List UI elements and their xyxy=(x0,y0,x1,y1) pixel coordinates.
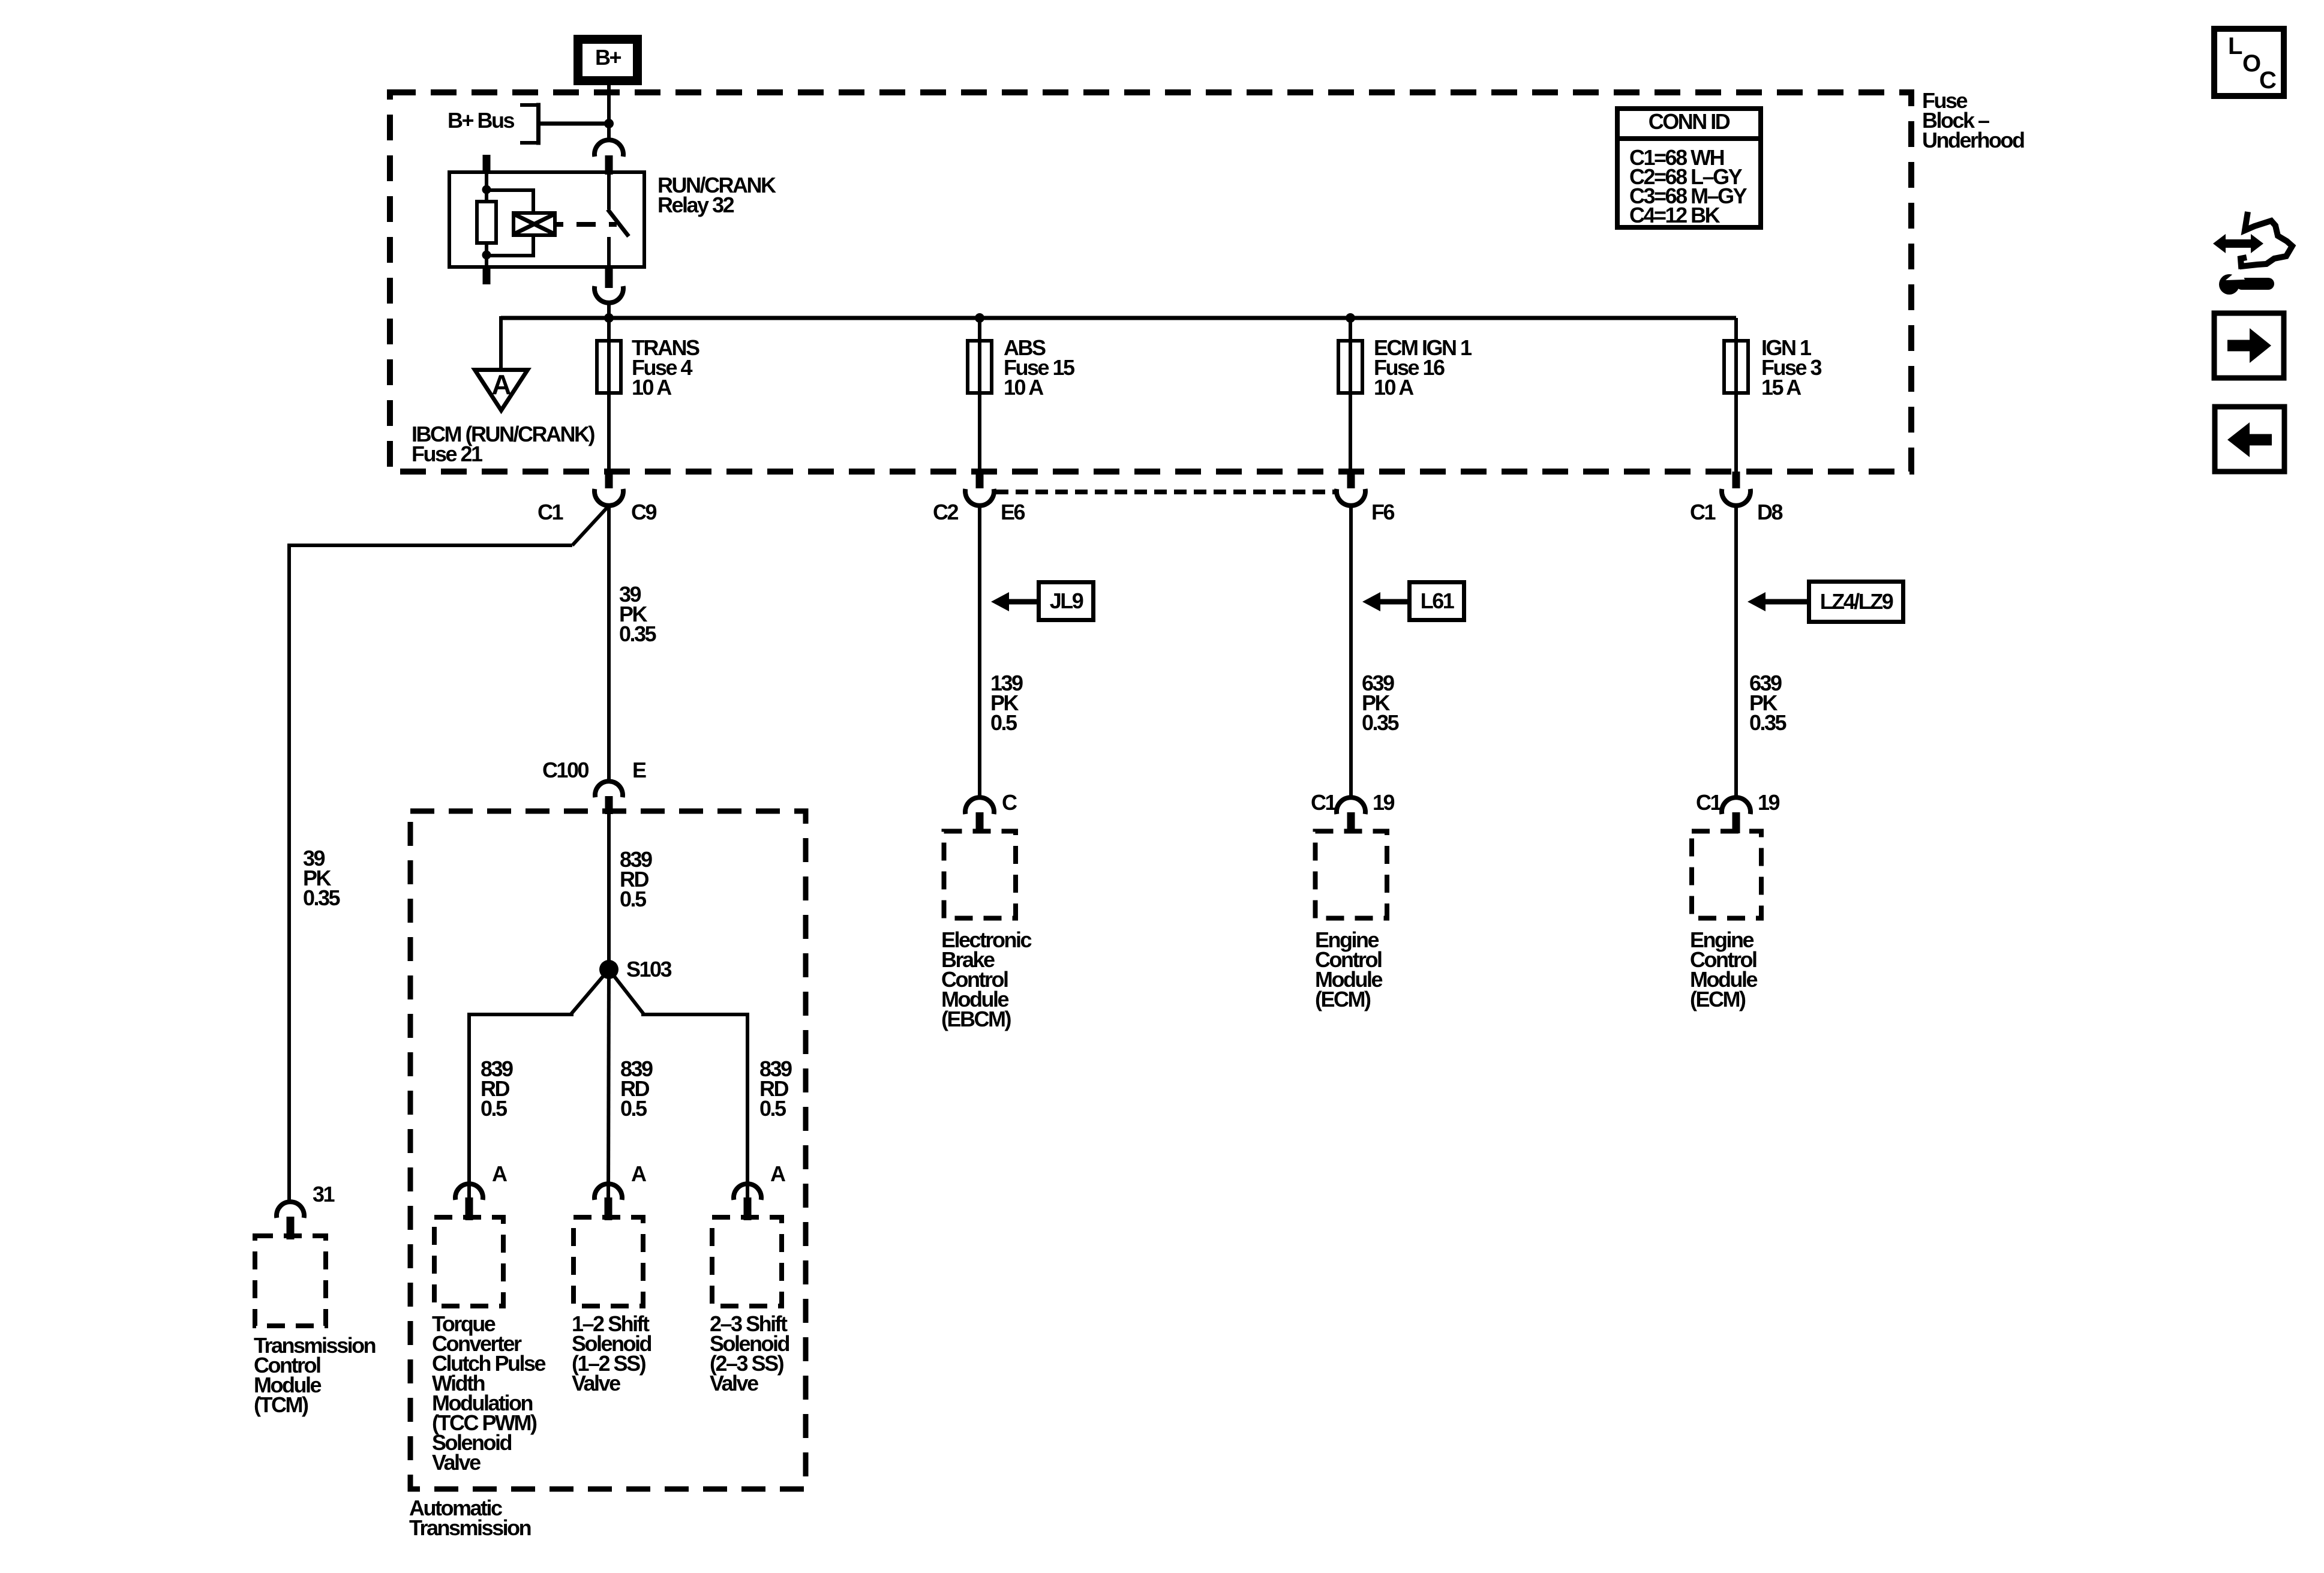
node bus ECM IGN fuse xyxy=(1346,313,1355,323)
svg-text:(EBCM): (EBCM) xyxy=(941,1007,1011,1031)
fuse ECM IGN 1 Fuse 16 xyxy=(1338,341,1362,393)
icon previous page arrow box xyxy=(2215,407,2284,472)
svg-text:B+: B+ xyxy=(595,45,621,70)
connector C1 19 terminal ECM right xyxy=(1722,797,1750,814)
svg-text:0.5: 0.5 xyxy=(620,887,647,911)
label 839 RD 0.5 middle xyxy=(620,1056,653,1121)
connector C1 19 terminal ECM xyxy=(1337,797,1365,814)
node coil bottom xyxy=(482,251,491,260)
svg-text:(TCM): (TCM) xyxy=(254,1392,308,1417)
connector 31 terminal TCM xyxy=(277,1202,304,1218)
wire dotted connector body link E6 to F6 xyxy=(996,490,1337,494)
wire horizontal run to TCM column xyxy=(289,544,572,547)
rpo arrow JL9 xyxy=(991,592,1009,611)
svg-text:C: C xyxy=(1002,790,1017,815)
svg-text:B+ Bus: B+ Bus xyxy=(448,108,515,133)
svg-text:A: A xyxy=(492,1161,508,1186)
wire EBCM column 139 PK xyxy=(978,506,981,798)
relay switch blade xyxy=(608,209,629,236)
wire branch to IBCM fuse xyxy=(499,316,503,368)
wire C100 to S103 839 RD xyxy=(607,814,611,968)
connector male pin into relay xyxy=(605,155,613,175)
svg-text:0.35: 0.35 xyxy=(303,885,341,910)
svg-text:C: C xyxy=(2259,67,2277,94)
label 639 PK 0.35 right xyxy=(1749,671,1787,735)
svg-text:L61: L61 xyxy=(1421,589,1455,613)
svg-text:CONN ID: CONN ID xyxy=(1649,109,1730,134)
svg-text:(ECM): (ECM) xyxy=(1690,987,1746,1011)
component 2-3 shift solenoid valve dashed box xyxy=(712,1217,782,1306)
svg-text:Transmission: Transmission xyxy=(409,1515,531,1540)
B+ Bus tap bracket xyxy=(520,105,539,143)
svg-text:0.35: 0.35 xyxy=(1749,710,1787,735)
off-page pointer A triangle IBCM xyxy=(475,370,528,411)
svg-text:L: L xyxy=(2228,33,2242,59)
icon next page arrow box xyxy=(2214,313,2284,378)
component TCC PWM solenoid valve dashed box xyxy=(434,1217,503,1306)
component ECM dashed box xyxy=(1316,831,1388,918)
fuse ABS Fuse 15 xyxy=(968,341,992,393)
svg-text:Underhood: Underhood xyxy=(1922,128,2024,152)
icon service outline shape xyxy=(2241,212,2292,266)
svg-text:10 A: 10 A xyxy=(1374,375,1414,400)
rpo arrow L61 xyxy=(1362,592,1380,611)
svg-text:C1: C1 xyxy=(1311,790,1337,815)
relay coil winding box with X xyxy=(514,213,555,235)
power feed B+ box xyxy=(578,40,638,81)
relay coil pin stub bottom xyxy=(483,267,491,284)
label 839 RD 0.5 right xyxy=(759,1056,792,1121)
wire dashed actuation link xyxy=(555,222,617,227)
connector A terminal TCC PWM solenoid xyxy=(455,1184,483,1200)
connector C100/E terminal and pin xyxy=(595,781,623,797)
svg-text:10 A: 10 A xyxy=(1004,375,1044,400)
label 639 PK 0.35 xyxy=(1362,671,1400,735)
component 1-2 shift solenoid valve dashed box xyxy=(574,1217,643,1306)
svg-text:10 A: 10 A xyxy=(632,375,672,400)
label Automatic Transmission xyxy=(409,1496,531,1540)
wire ECM IGN fuse column xyxy=(1349,318,1352,472)
svg-text:A: A xyxy=(770,1161,786,1186)
svg-text:A: A xyxy=(491,369,511,400)
node coil top xyxy=(482,185,491,194)
component TCM dashed box xyxy=(255,1236,326,1326)
relay switch fixed contact top xyxy=(607,172,611,209)
connector female terminal below relay pin 87 xyxy=(594,286,623,303)
icon service double arrow xyxy=(2213,234,2263,253)
node bus TRANS fuse xyxy=(604,313,614,323)
wire coil parallel branch bottom xyxy=(487,235,533,256)
label RUN/CRANK Relay 32 xyxy=(657,173,776,217)
connector C1/D8 pin and terminal xyxy=(1733,472,1740,488)
svg-text:C1: C1 xyxy=(1696,790,1722,815)
svg-text:19: 19 xyxy=(1373,790,1395,815)
automatic transmission dashed box xyxy=(410,811,806,1489)
svg-text:D8: D8 xyxy=(1757,500,1782,524)
label 139 PK 0.5 xyxy=(990,671,1023,735)
svg-text:31: 31 xyxy=(313,1182,335,1206)
wire B+ to relay xyxy=(607,85,611,140)
fuse IGN 1 Fuse 3 xyxy=(1724,341,1748,393)
icon LOC box xyxy=(2214,29,2284,96)
component ECM right dashed box xyxy=(1692,831,1761,918)
component EBCM dashed box xyxy=(944,831,1016,918)
svg-text:C4=12 BK: C4=12 BK xyxy=(1629,203,1721,227)
wire ABS fuse column xyxy=(978,318,981,472)
wire coil parallel branch top xyxy=(487,190,533,213)
svg-text:S103: S103 xyxy=(626,957,672,981)
wire IGN 1 column 639 PK xyxy=(1734,506,1738,798)
table CONN ID xyxy=(1617,109,1761,227)
connector F6 pin and terminal xyxy=(1347,472,1355,488)
label 39 PK 0.35 xyxy=(619,582,657,646)
svg-text:19: 19 xyxy=(1758,790,1780,815)
connector C terminal EBCM xyxy=(965,797,994,814)
label 839 RD 0.5 xyxy=(620,847,652,911)
resistor relay suppression xyxy=(477,202,496,243)
svg-text:C2: C2 xyxy=(933,500,958,524)
svg-text:JL9: JL9 xyxy=(1050,589,1083,613)
svg-text:C9: C9 xyxy=(631,500,656,524)
wire S103 middle branch xyxy=(608,969,609,1197)
node splice S103 xyxy=(599,960,618,979)
svg-text:Valve: Valve xyxy=(432,1450,481,1475)
node B+ Bus junction xyxy=(604,119,614,128)
icon service wrench xyxy=(2219,274,2274,295)
svg-text:A: A xyxy=(631,1161,647,1186)
relay coil pin stub top xyxy=(483,155,491,173)
wire ECM IGN column 639 PK xyxy=(1349,506,1353,798)
wire S103 right branch xyxy=(609,969,747,1197)
label Fuse Block Underhood xyxy=(1922,88,2024,152)
wire B+ Bus to junction xyxy=(539,122,609,126)
wire C9 to C100 39 PK xyxy=(607,506,611,781)
svg-text:O: O xyxy=(2242,50,2261,77)
label 39 PK 0.35 TCM branch xyxy=(303,846,341,910)
svg-text:Valve: Valve xyxy=(572,1371,620,1395)
wire ignition bus xyxy=(501,316,1736,320)
svg-text:Fuse 21: Fuse 21 xyxy=(412,442,483,466)
label 839 RD 0.5 left xyxy=(481,1056,513,1121)
svg-text:Relay 32: Relay 32 xyxy=(657,193,734,217)
relay RUN/CRANK Relay 32 box xyxy=(449,172,644,267)
svg-text:E6: E6 xyxy=(1001,500,1025,524)
connector C2/E6 pin and terminal xyxy=(976,472,984,488)
wire TCM column vertical 39 PK xyxy=(287,544,291,1202)
connector A terminal 1-2 shift solenoid xyxy=(594,1184,622,1200)
relay switch contact bottom xyxy=(607,237,611,267)
svg-text:0.5: 0.5 xyxy=(759,1096,786,1121)
svg-text:0.5: 0.5 xyxy=(481,1096,508,1121)
svg-text:F6: F6 xyxy=(1371,500,1394,524)
wire TRANS fuse column xyxy=(607,318,611,472)
svg-text:C1: C1 xyxy=(1690,500,1716,524)
svg-text:Valve: Valve xyxy=(710,1371,758,1395)
wire C1 branch diagonal to TCM xyxy=(572,507,608,545)
svg-text:0.35: 0.35 xyxy=(619,622,657,646)
wire IGN 1 fuse column xyxy=(1734,318,1738,472)
fuse TRANS Fuse 4 xyxy=(597,341,621,393)
label IBCM (RUN/CRANK) Fuse 21 xyxy=(412,422,594,466)
connector A terminal 2-3 shift solenoid xyxy=(734,1184,761,1200)
connector female terminal above relay pin 30 xyxy=(594,140,623,157)
wire S103 left branch xyxy=(469,969,609,1197)
wire relay coil branch left xyxy=(485,172,488,267)
relay output pin stub xyxy=(605,269,613,288)
svg-text:C100: C100 xyxy=(542,758,589,782)
rpo arrow LZ4/LZ9 xyxy=(1747,592,1765,611)
fuse block underhood dashed box xyxy=(390,92,1911,472)
svg-text:0.35: 0.35 xyxy=(1362,710,1400,735)
svg-text:LZ4/LZ9: LZ4/LZ9 xyxy=(1820,589,1893,614)
svg-text:E: E xyxy=(632,758,646,782)
svg-text:15 A: 15 A xyxy=(1761,375,1801,400)
connector C1/C9 pin and terminal xyxy=(605,472,613,488)
svg-text:0.5: 0.5 xyxy=(990,710,1017,735)
wire relay to bus xyxy=(607,303,611,318)
svg-text:(ECM): (ECM) xyxy=(1315,987,1371,1011)
svg-text:C1: C1 xyxy=(538,500,563,524)
svg-text:0.5: 0.5 xyxy=(620,1096,647,1121)
node bus ABS fuse xyxy=(975,313,984,323)
